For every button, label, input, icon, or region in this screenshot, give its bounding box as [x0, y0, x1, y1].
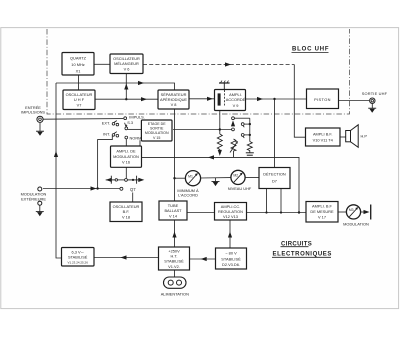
wire etage output to grid network [173, 129, 232, 131]
wire ampli accorde cathode down [219, 111, 221, 135]
oscillateur UHF V7 [63, 90, 95, 110]
tube ballast V14 [159, 201, 187, 220]
svg-text:AMPLI B.F.: AMPLI B.F. [313, 132, 332, 137]
svg-text:Q7: Q7 [130, 187, 136, 192]
arrow up -80V supply [228, 232, 232, 238]
meter M1 minimum a l'accord [185, 171, 200, 186]
arrow right separateur to ampli accorde [207, 97, 213, 101]
wire ampli mod to etage vertical [139, 140, 141, 146]
svg-text:ALIMENTATION: ALIMENTATION [161, 292, 189, 297]
node S4 contact junction lower [249, 134, 251, 136]
svg-text:NIVEAU UHF: NIVEAU UHF [228, 186, 252, 191]
title CIRCUITS ELECTRONIQUES [272, 241, 332, 257]
node M1 cathode junction [173, 177, 175, 179]
svg-text:SORTIE UHF: SORTIE UHF [362, 91, 388, 96]
wire mech linkage osc melangeur to right column [143, 64, 294, 66]
svg-text:V 18: V 18 [122, 215, 130, 220]
svg-text:U H F: U H F [74, 97, 85, 102]
meter M3 modulation [346, 205, 360, 219]
wire S3 pole to etage [128, 128, 142, 130]
svg-text:SORTIE: SORTIE [150, 127, 164, 131]
svg-text:EXTÉRIEURE: EXTÉRIEURE [21, 197, 46, 202]
svg-text:MODULATION: MODULATION [343, 222, 369, 227]
arrow left AGC feedback [208, 155, 214, 159]
arrow up osc melangeur feedback [124, 84, 128, 90]
wire AGC feedback y157 [142, 157, 300, 212]
svg-text:V1.V2.: V1.V2. [168, 264, 180, 269]
wire 6.3V to +250V [94, 257, 159, 259]
arrow right mech linkage [225, 62, 231, 66]
+250V HT stabilise V1 V2 [159, 247, 190, 270]
wire M2 to detection [245, 177, 259, 179]
arrow up +250V supply [172, 232, 176, 238]
connector entree impulsions [37, 116, 43, 122]
connector modulation exterieure shield [38, 201, 42, 205]
wire separateur to ampli accorde [189, 98, 215, 100]
svg-text:PISTON: PISTON [314, 97, 331, 102]
svg-text:M1: M1 [188, 174, 193, 178]
oscillateur melangeur V6 [110, 54, 143, 74]
ground arrow under R1 [218, 150, 222, 156]
ampli CC regulation V12 V13 [215, 203, 247, 221]
etage de sortie modulation V15 [141, 120, 172, 141]
wire entree impulsions [43, 118, 123, 121]
wire meter M3 to output jack [361, 211, 366, 213]
wire cap network left of terminal [118, 179, 125, 181]
arrow up on switch S4 arm [231, 120, 235, 126]
switch int contact [112, 132, 119, 137]
wire sortie uhf ground stub [371, 104, 373, 109]
ground stub between M1 M2 [215, 178, 217, 182]
arrow left -80 to +250 feed [201, 257, 207, 261]
svg-text:D2.V3.D6.: D2.V3.D6. [222, 262, 240, 267]
wire M1 to M2 [201, 177, 231, 179]
terminal Q7 [120, 187, 123, 190]
ground entree impulsions [36, 131, 44, 136]
svg-text:NORM: NORM [130, 135, 142, 140]
svg-text:BALLAST: BALLAST [164, 208, 182, 213]
potentiometer R2 [230, 139, 238, 157]
svg-text:B.F.: B.F. [123, 209, 130, 214]
svg-text:L'ACCORD: L'ACCORD [178, 193, 198, 198]
connector modulation exterieure signal [38, 187, 42, 191]
wire detection bottom stub 1 [266, 189, 268, 213]
ampli BF de mesure V17 [306, 202, 338, 223]
jack bar output modulation [370, 205, 372, 220]
capacitor C1 under R3 [246, 153, 254, 155]
detection D7 [259, 168, 290, 189]
arrow right meter M3 to jack [364, 210, 370, 214]
svg-text:DÉTECTION: DÉTECTION [263, 172, 286, 177]
wire norm contact to ampli modulation [125, 139, 127, 146]
ground between M1 and M2 [212, 182, 220, 187]
wire entree impulsions ground stub [39, 123, 41, 131]
oscillateur BF V18 [110, 202, 142, 222]
svg-text:AMPLI. B.F: AMPLI. B.F [312, 204, 333, 209]
arrow right osc uhf to separateur [141, 97, 147, 101]
terminal node under ampli mod [125, 179, 128, 182]
wire rail tube ballast to ampli cc [187, 212, 215, 214]
title BLOC UHF [292, 47, 330, 53]
svg-text:− 80 V: − 80 V [225, 251, 237, 256]
wire detection bottom stub 2 [280, 189, 282, 213]
wire to meter M1 [175, 177, 186, 179]
svg-text:INT.: INT. [103, 132, 110, 137]
switch ext contact [112, 121, 119, 126]
node mod ext riser junction [96, 187, 98, 189]
wire ampli cc to -80V [229, 220, 231, 248]
svg-text:M3: M3 [349, 208, 354, 212]
svg-text:V 9: V 9 [233, 103, 239, 108]
wire piston to sortie UHF [337, 100, 369, 102]
svg-text:V 17: V 17 [318, 215, 326, 220]
chassis ground above ampli accorde [219, 81, 230, 90]
svg-text:MODULATION: MODULATION [145, 131, 169, 135]
svg-text:V 16: V 16 [122, 160, 130, 165]
capacitor C3 with ground arrow [127, 176, 138, 184]
separateur aperiodique V8 [158, 90, 189, 109]
wire quartz to oscillateur melangeur [94, 63, 110, 65]
svg-text:X1: X1 [76, 69, 81, 74]
wire cathode bus x174.5 [174, 109, 176, 201]
svg-text:V 6: V 6 [124, 66, 130, 71]
wire osc melangeur feedback vertical [125, 73, 127, 99]
switch S3 impuls/norm [124, 117, 128, 139]
svg-text:V12 V13: V12 V13 [223, 214, 238, 219]
connector alimentation [164, 277, 187, 288]
wire filament rail top y83 [56, 83, 175, 90]
ground sortie uhf [368, 108, 376, 113]
node detection stub rail junction 2 [280, 211, 282, 213]
svg-text:MODULATION: MODULATION [113, 154, 139, 159]
svg-text:V7: V7 [77, 103, 82, 108]
wire vertical bus x294.3 down to ampli bf [294, 65, 305, 138]
-80V stabilise [216, 248, 247, 269]
svg-text:V 15: V 15 [153, 136, 160, 140]
node osc uhf separateur junction [125, 98, 127, 100]
wire +250V to alimentation connector [174, 270, 176, 277]
resistor R3 [247, 142, 252, 153]
ampli de modulation V16 [111, 146, 142, 167]
quartz X1 [62, 53, 94, 76]
speaker HP [346, 125, 359, 148]
ampli accorde V9 [215, 90, 246, 111]
arrow right ampli accorde output [257, 97, 263, 101]
piston [307, 89, 339, 109]
svg-text:AMPLI. DE: AMPLI. DE [116, 149, 136, 154]
svg-text:STABILISÉ: STABILISÉ [68, 255, 88, 260]
svg-text:APÉRIODIQUE: APÉRIODIQUE [160, 97, 187, 102]
wire quartz bottom to osc uhf top [78, 75, 80, 90]
svg-text:ELECTRONIQUES: ELECTRONIQUES [273, 251, 332, 257]
wire tube ballast to +250V [174, 220, 176, 247]
wire mod ext riser [98, 136, 113, 189]
wire +250V to -80V [190, 258, 216, 260]
wire rail ampli cc to ampli mesure [247, 212, 307, 214]
arrow right modulation exterieure [91, 186, 97, 190]
arrow left 6.3V feed [121, 255, 127, 259]
svg-text:ETAGE DE: ETAGE DE [148, 122, 167, 126]
node detection stub rail junction 1 [265, 211, 267, 213]
node piston line junction [273, 98, 275, 100]
switch S4 niveau [232, 117, 250, 142]
svg-text:ACCORDÉ: ACCORDÉ [226, 97, 246, 102]
wire ampli mod bottom stub [125, 167, 127, 178]
wire Q7 terminal to oscillateur bf [132, 193, 134, 203]
svg-text:V1.23.24.25.26: V1.23.24.25.26 [68, 261, 89, 265]
wire node to detection vertical [274, 99, 276, 168]
svg-text:10 MHz: 10 MHz [71, 62, 84, 67]
node grid network junction [219, 128, 221, 130]
svg-text:H.P: H.P [361, 134, 368, 139]
svg-text:STABILISÉ: STABILISÉ [221, 256, 241, 261]
svg-text:V10 V11 T4: V10 V11 T4 [313, 138, 334, 143]
wire ampli accorde to piston [246, 98, 308, 100]
6.3V stabilise [62, 248, 95, 267]
wire filament rail left x56 [56, 83, 62, 258]
arrow up filament rail [54, 151, 58, 157]
svg-text:IMPULSIONS: IMPULSIONS [21, 110, 45, 115]
node S4 contact junction upper [249, 123, 251, 125]
svg-text:IMPULS.: IMPULS. [129, 115, 145, 120]
svg-text:V 14: V 14 [169, 214, 178, 219]
bloc UHF dash-dot boundary [47, 29, 350, 114]
svg-text:QUARTZ: QUARTZ [70, 56, 87, 61]
arrow right on filament rail [138, 81, 144, 85]
svg-text:M2: M2 [233, 174, 238, 178]
svg-text:D7: D7 [272, 179, 277, 184]
svg-text:MÉLANGEUR: MÉLANGEUR [114, 61, 139, 66]
svg-text:DE MESURE: DE MESURE [310, 209, 334, 214]
svg-text:EXT.: EXT. [102, 120, 110, 125]
node mesure rail junction [298, 211, 300, 213]
svg-text:BLOC UHF: BLOC UHF [292, 47, 329, 53]
wire osc uhf to separateur [95, 98, 158, 100]
ampli BF V10 V11 T4 [306, 128, 341, 146]
wire ampli mesure to meter M3 [338, 211, 346, 213]
capacitor C2 with arrow left [111, 176, 115, 184]
wire ampli bf to speaker [340, 136, 346, 138]
svg-text:S.3: S.3 [127, 120, 133, 125]
meter M2 niveau uhf [231, 170, 245, 184]
svg-text:V 8: V 8 [171, 102, 177, 107]
ground modulation exterieure [36, 212, 44, 217]
wire modulation exterieure to switch [43, 188, 120, 190]
wire mod ext ground stub [39, 205, 41, 211]
connector sortie uhf [370, 98, 375, 103]
resistor R1 [217, 134, 222, 151]
